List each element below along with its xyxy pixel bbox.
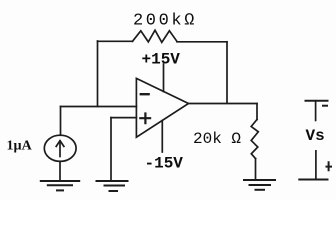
svg-text:-15V: -15V (145, 154, 184, 172)
resistor R1 200k zigzag (133, 30, 178, 42)
resistor R2 20k zigzag (251, 120, 258, 159)
ground (20k resistor) (243, 180, 276, 190)
current source I1 circle (44, 135, 76, 161)
wire +15V supply (163, 64, 165, 92)
op-amp plus marker (139, 112, 151, 124)
wire inverting input (61, 106, 137, 108)
svg-text:Vs: Vs (306, 127, 325, 145)
wire feedback top-right horizontal (177, 41, 227, 43)
wire output (189, 103, 258, 105)
wire feedback right vertical (226, 42, 228, 104)
op-amp U1 triangle (136, 78, 188, 137)
ground (current source) (40, 181, 80, 190)
wire -15V supply (161, 121, 163, 152)
svg-text:1µA: 1µA (7, 139, 33, 154)
Vs annotation bottom terminal (298, 150, 332, 180)
Vs annotation top terminal (305, 101, 329, 122)
svg-text:200kΩ: 200kΩ (133, 12, 197, 31)
op-amp minus marker (140, 93, 150, 95)
svg-text:+15V: +15V (142, 51, 181, 69)
wire current source bottom (59, 161, 61, 181)
wire noninverting input (111, 117, 136, 119)
svg-text:20k Ω: 20k Ω (193, 130, 241, 148)
wire output down to 20k (256, 104, 258, 120)
wire current source top (60, 107, 62, 136)
wire feedback left vertical (97, 41, 99, 107)
current source arrow (59, 141, 61, 157)
wire 20k to ground (255, 159, 257, 181)
wire feedback top-left horizontal (98, 40, 133, 42)
wire noninverting to ground vertical (110, 118, 112, 181)
ground (noninverting input) (96, 181, 129, 191)
